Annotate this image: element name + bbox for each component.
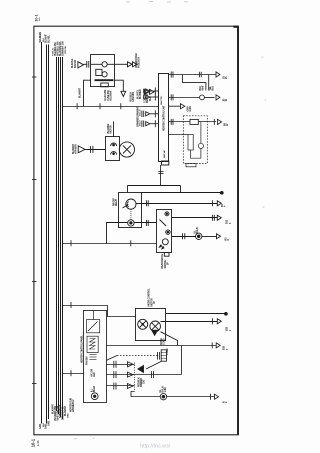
svg-text:BULB: BULB — [93, 386, 96, 392]
svg-text:FAN SW: FAN SW — [86, 356, 89, 365]
svg-text:COND: COND — [166, 348, 169, 355]
svg-text:G401: G401 — [47, 420, 50, 426]
svg-text:FAN CTRL: FAN CTRL — [160, 95, 163, 105]
svg-text:BLU: BLU — [212, 86, 215, 91]
svg-text:BLU/RED: BLU/RED — [139, 89, 142, 99]
svg-text:CKT: CKT — [143, 379, 146, 384]
svg-text:BLK: BLK — [43, 423, 45, 427]
svg-text:G401: G401 — [39, 423, 42, 429]
svg-text:BLU/WHT: BLU/WHT — [79, 87, 82, 98]
svg-text:FUSE BOX: FUSE BOX — [137, 56, 140, 68]
svg-text:A-10: A-10 — [36, 440, 40, 446]
svg-text:COND: COND — [163, 338, 166, 345]
svg-text:G401: G401 — [189, 105, 192, 111]
svg-text:HTR MTR: HTR MTR — [75, 144, 78, 154]
svg-text:HARNESS 2: HARNESS 2 — [72, 399, 75, 412]
svg-text:BLK: BLK — [43, 38, 45, 42]
svg-text:RELAY: RELAY — [115, 198, 118, 206]
svg-text:W/GREEN: W/GREEN — [39, 32, 42, 43]
svg-text:MOTOR: MOTOR — [110, 125, 113, 134]
svg-text:LED: LED — [93, 372, 96, 377]
svg-text:BLK/WHT: BLK/WHT — [51, 403, 54, 414]
svg-text:10-1: 10-1 — [34, 14, 38, 21]
svg-text:http://tns.ws/: http://tns.ws/ — [140, 444, 171, 450]
svg-text:HEATER CONTROL UNIT: HEATER CONTROL UNIT — [163, 105, 166, 131]
svg-text:FAN MTR: FAN MTR — [132, 92, 135, 102]
svg-text:4dr: 4dr — [38, 17, 41, 21]
svg-text:10-1: 10-1 — [31, 438, 36, 447]
svg-text:HTR 20A: HTR 20A — [64, 46, 67, 54]
svg-text:HEATER CONTROL PANEL: HEATER CONTROL PANEL — [80, 335, 83, 363]
svg-text:WHT: WHT — [202, 85, 205, 91]
svg-text:1.4W: 1.4W — [164, 387, 167, 393]
svg-text:AMP 14P: AMP 14P — [163, 149, 166, 158]
svg-text:ECU 22: ECU 22 — [139, 109, 141, 116]
svg-text:IGN SW: IGN SW — [74, 59, 77, 68]
svg-text:BL/YEL: BL/YEL — [47, 35, 50, 43]
svg-text:FUSE 24: FUSE 24 — [51, 48, 54, 56]
svg-text:BLU/WHT: BLU/WHT — [109, 90, 112, 101]
svg-text:BULB: BULB — [196, 227, 199, 233]
